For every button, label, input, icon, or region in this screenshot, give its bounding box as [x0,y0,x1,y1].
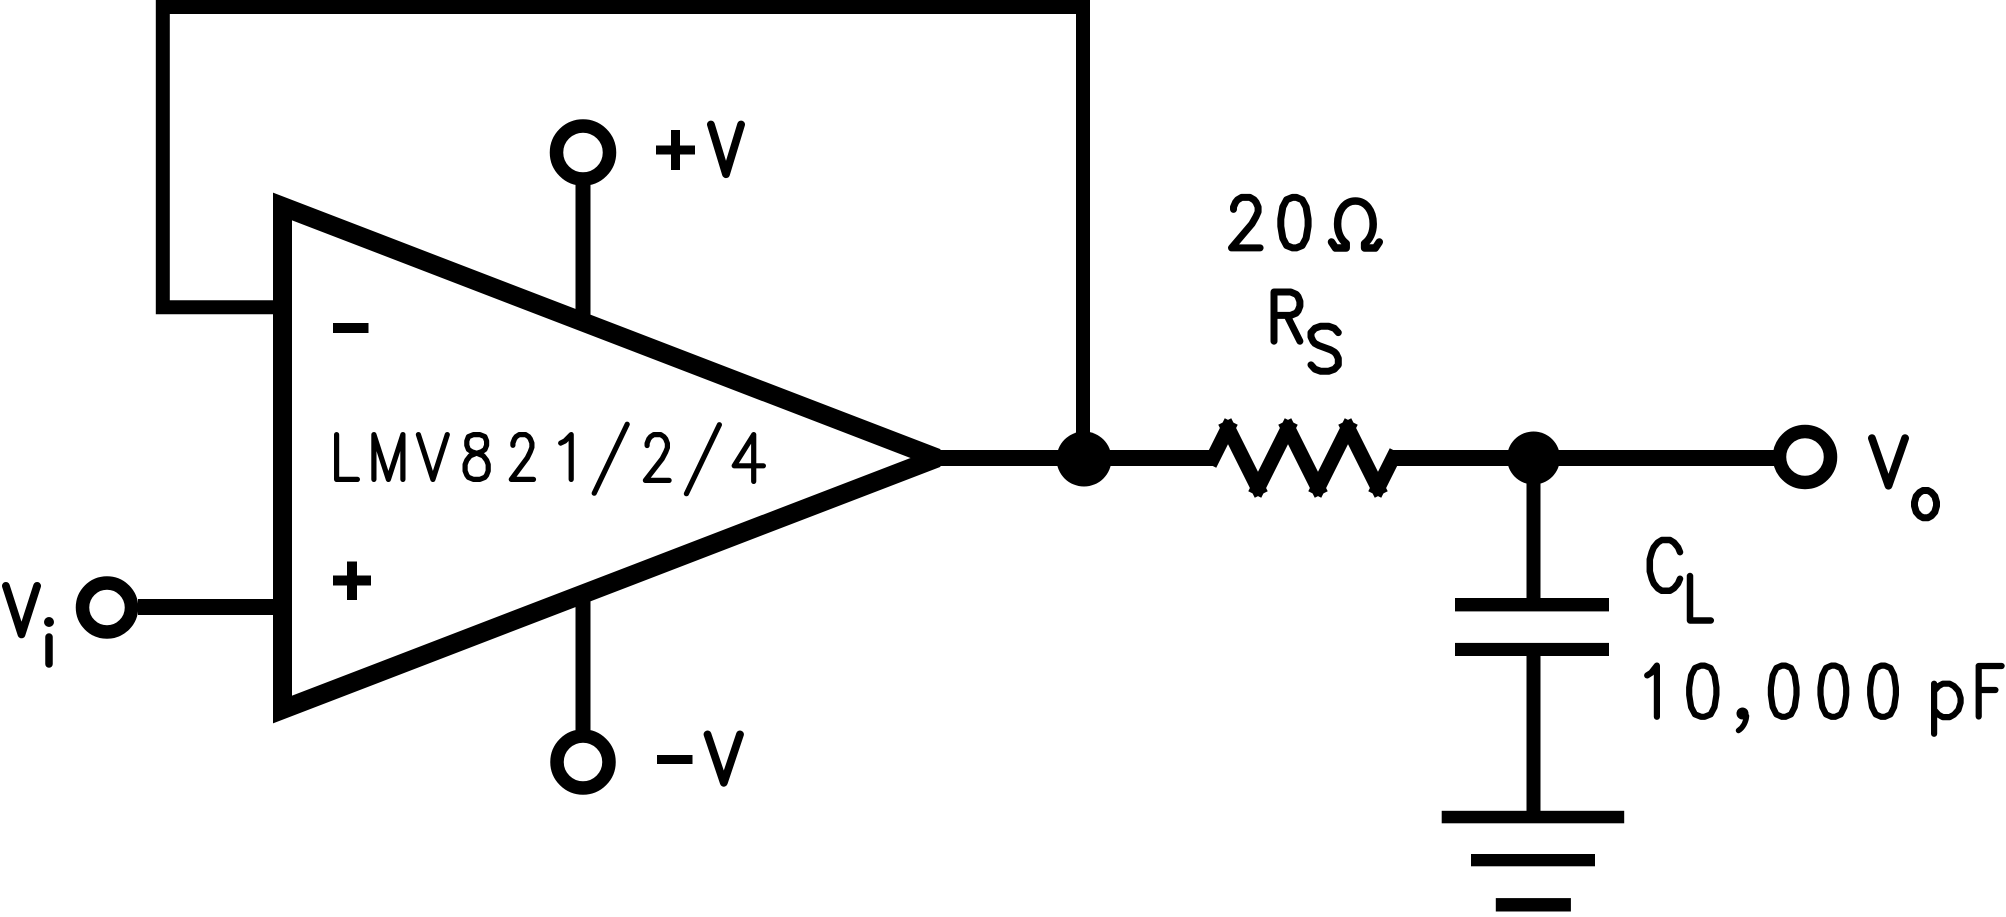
label +V [656,125,741,175]
resistor RS zigzag [1213,428,1393,488]
op-amp U1 triangle [283,207,938,710]
label 10,000 pF [1647,666,2001,734]
wire -V stub [576,592,591,730]
wire resistor to Vo [1389,450,1774,466]
ground symbol [1442,811,1625,912]
inverting input minus sign [333,323,369,333]
label CL [1650,540,1711,621]
terminal Vi circle [83,583,132,632]
wire op-amp output to resistor [937,450,1217,466]
label RS [1274,292,1338,371]
non-inverting input plus sign [333,576,371,586]
terminal Vo circle [1780,432,1831,483]
terminal -V circle [557,736,609,788]
wire Vi to non-inverting input [138,599,283,615]
terminal +V circle [557,126,610,179]
label 20 ohm [1232,197,1380,248]
capacitor CL plates [1455,598,1609,656]
wire junction to capacitor [1527,458,1541,598]
op-amp label LMV821/2/4 [337,424,764,494]
label Vi [6,586,54,664]
label Vo [1872,438,1937,518]
node junction at output/feedback [1057,432,1112,487]
wire capacitor to ground [1527,656,1541,811]
wire feedback loop (output to inverting input) [163,7,1083,458]
wire +V stub [576,185,591,318]
label -V [657,734,740,782]
node junction at capacitor tap [1507,432,1560,485]
